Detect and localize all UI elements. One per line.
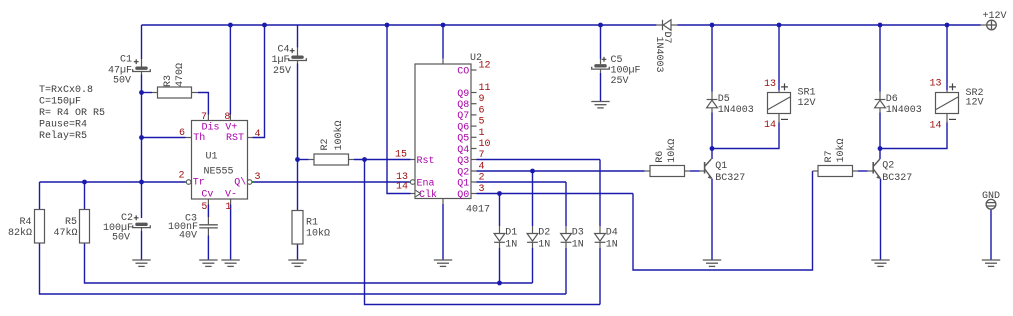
wire SR2 coil bottom to Q2 collector node <box>946 114 948 123</box>
svg-text:D1: D1 <box>505 228 517 239</box>
node junction rail/SR1 <box>777 23 782 28</box>
wire Tr pin 2 from R4/R5 node <box>40 181 187 183</box>
wire C2 bottom to ground <box>141 228 143 232</box>
wire Q2 collector <box>879 149 881 160</box>
U2 pin 10 Q4 stub <box>471 148 477 150</box>
svg-text:4: 4 <box>255 129 261 140</box>
wire R5 top <box>84 182 86 210</box>
svg-text:Dis: Dis <box>202 121 220 133</box>
wire V- pin 1 to ground <box>230 199 232 205</box>
svg-text:Q4: Q4 <box>457 145 469 156</box>
svg-text:1N4003: 1N4003 <box>718 105 754 116</box>
svg-text:R1: R1 <box>306 218 318 229</box>
wire RST pin 4 to rail <box>248 137 253 139</box>
wire R4 top <box>39 182 41 210</box>
U2 pin 7 Q3 stub <box>471 159 477 161</box>
svg-text:47kΩ: 47kΩ <box>53 227 77 239</box>
diode D1 <box>494 234 505 243</box>
ground C3 <box>199 260 217 266</box>
wire Cv pin 5 to C3 <box>207 199 209 205</box>
svg-text:Relay=R5: Relay=R5 <box>39 130 87 142</box>
diode D4 <box>595 234 606 243</box>
svg-text:R3: R3 <box>163 75 174 87</box>
svg-text:Cv: Cv <box>201 190 213 201</box>
wire rail to SR1 coil <box>778 25 780 90</box>
svg-text:1N4003: 1N4003 <box>886 105 922 116</box>
node junction D1 cathode on R5 bus <box>497 281 502 286</box>
svg-text:Q3: Q3 <box>457 156 469 167</box>
wire +12V terminal lead <box>981 24 987 26</box>
IC U1 NE555 body <box>192 121 248 200</box>
wire +12V rail right segment <box>678 24 981 26</box>
svg-text:100kΩ: 100kΩ <box>333 120 345 150</box>
wire U2 VSS bottom to ground <box>442 199 444 205</box>
svg-text:BC327: BC327 <box>715 173 745 184</box>
wire R4 bottom to bus <box>40 243 567 294</box>
wire C1 bottom to Th/Tr node column <box>141 71 143 75</box>
svg-text:14: 14 <box>929 121 941 132</box>
wire Q0 output row <box>477 193 634 195</box>
U1 pin 3 Q inversion circle <box>247 180 252 185</box>
resistor R5 <box>80 210 90 244</box>
diode D7 <box>656 20 677 30</box>
wire R3 right to Dis pin 7 <box>192 92 198 94</box>
U2 pin 11 Q9 stub <box>471 92 477 94</box>
svg-text:10kΩ: 10kΩ <box>666 139 678 163</box>
node junction rail/C5 <box>598 23 603 28</box>
svg-text:3: 3 <box>479 184 485 195</box>
wire D1 anode drop <box>499 194 501 227</box>
svg-text:100µF: 100µF <box>611 66 641 77</box>
wire D2 cathode to R5 bus <box>532 248 534 283</box>
svg-text:C1: C1 <box>120 55 132 66</box>
node junction R2/Rst riser <box>362 157 367 162</box>
svg-text:V-: V- <box>225 190 237 201</box>
wire R1 bottom to ground <box>297 244 299 260</box>
diode D5 <box>707 100 718 108</box>
svg-text:BC327: BC327 <box>882 173 912 184</box>
svg-text:40V: 40V <box>179 231 197 242</box>
wire D6 anode to Q2 collector node <box>879 108 881 112</box>
U2 pin 2 Q1 stub <box>471 181 477 183</box>
diode D2 <box>527 234 538 243</box>
svg-text:13: 13 <box>929 79 941 90</box>
diode D6 <box>875 100 886 108</box>
svg-text:Q7: Q7 <box>457 111 469 122</box>
svg-text:10kΩ: 10kΩ <box>306 228 330 240</box>
svg-text:GND: GND <box>982 191 1000 202</box>
U2 pin 4 Q2 stub <box>471 170 477 172</box>
wire C4 bottom to R2/Rst node <box>297 61 299 64</box>
wire C3 bottom to ground <box>207 228 209 236</box>
wire D3 cathode to R4 bus <box>565 248 567 294</box>
svg-text:13: 13 <box>764 79 776 90</box>
wire C1 column top (rail to C1) <box>141 25 143 59</box>
node junction Tr <box>139 180 144 185</box>
wire rail to D6 <box>879 25 881 92</box>
svg-text:R4: R4 <box>19 217 31 228</box>
node junction D5/SR1/Q1 <box>710 146 715 151</box>
svg-text:5: 5 <box>201 202 207 213</box>
svg-text:D4: D4 <box>606 228 618 239</box>
wire Q2 output row to R6 <box>477 170 645 172</box>
wire Q1 emitter to ground <box>711 179 713 261</box>
svg-text:R7: R7 <box>824 150 835 162</box>
capacitor C1 <box>133 59 151 71</box>
wire Th pin 6 <box>142 137 186 139</box>
wire rail to Clk pin 14 <box>387 25 411 194</box>
resistor R3 <box>158 87 192 98</box>
svg-text:15: 15 <box>395 150 407 161</box>
svg-text:C4: C4 <box>277 44 289 55</box>
svg-text:D6: D6 <box>886 94 898 105</box>
wire V+ pin 8 to rail <box>229 25 231 115</box>
svg-text:Pause=R4: Pause=R4 <box>39 119 87 130</box>
svg-text:10kΩ: 10kΩ <box>835 138 847 162</box>
svg-text:25V: 25V <box>611 76 629 87</box>
IC U2 4017 body <box>415 64 471 199</box>
node junction rail/D6 <box>878 23 883 28</box>
svg-text:R5: R5 <box>65 217 77 228</box>
capacitor C5 <box>592 57 610 69</box>
svg-text:1: 1 <box>225 202 231 213</box>
svg-text:Q0: Q0 <box>457 190 469 201</box>
svg-text:D3: D3 <box>572 228 584 239</box>
terminal +12V <box>987 20 997 30</box>
svg-text:10: 10 <box>479 139 491 150</box>
capacitor C2 <box>133 215 151 227</box>
U2 pin 1 Q5 stub <box>471 136 477 138</box>
svg-text:4: 4 <box>479 162 485 173</box>
svg-text:12V: 12V <box>798 98 816 109</box>
svg-text:R6: R6 <box>655 151 666 163</box>
svg-text:D2: D2 <box>538 228 550 239</box>
wire R2 left lead <box>298 159 309 161</box>
svg-text:50V: 50V <box>112 233 130 244</box>
resistor R6 <box>650 166 685 177</box>
svg-text:V+: V+ <box>225 122 237 133</box>
ground C2 <box>132 260 150 266</box>
svg-text:Q8: Q8 <box>457 100 469 111</box>
ground C5 <box>591 102 609 108</box>
svg-text:Q2: Q2 <box>882 161 894 172</box>
wire R7 right to Q2 base <box>853 170 859 172</box>
svg-text:+12V: +12V <box>983 11 1007 22</box>
wire GND terminal to ground <box>990 210 992 261</box>
svg-text:Q1: Q1 <box>457 178 469 189</box>
svg-text:7: 7 <box>201 112 207 123</box>
wire C4 column (rail to C4) <box>297 25 299 48</box>
U1 pin 2 Tr inversion circle <box>186 180 191 185</box>
capacitor C4 <box>289 48 307 60</box>
U2 pin 9 Q8 stub <box>471 103 477 105</box>
svg-text:Q1: Q1 <box>715 161 727 172</box>
wire +12V rail left segment <box>142 24 657 26</box>
wire R2 right to Rst pin 15 <box>349 159 355 161</box>
ground Q1 emitter <box>703 260 721 266</box>
svg-text:11: 11 <box>479 83 491 94</box>
svg-text:6: 6 <box>479 105 485 116</box>
wire rail to C5 <box>600 25 602 59</box>
svg-text:Ena: Ena <box>417 179 435 190</box>
U2 pin 3 Q0 stub <box>471 193 477 195</box>
svg-text:1N: 1N <box>606 239 618 250</box>
ground R1 <box>288 260 306 266</box>
U2 pin 12 CO stub <box>471 69 477 71</box>
svg-text:6: 6 <box>179 128 185 139</box>
svg-text:1N4003: 1N4003 <box>653 37 664 73</box>
svg-text:25V: 25V <box>273 66 291 77</box>
svg-text:1N: 1N <box>572 239 584 250</box>
node junction rail/U2 <box>441 23 446 28</box>
ground U2 <box>434 260 452 266</box>
svg-text:NE555: NE555 <box>204 167 234 178</box>
svg-text:14: 14 <box>396 182 408 193</box>
svg-text:SR1: SR1 <box>798 88 816 99</box>
svg-text:D5: D5 <box>718 94 730 105</box>
svg-text:5: 5 <box>479 117 485 128</box>
transistor Q1 <box>705 159 712 178</box>
svg-text:CO: CO <box>457 66 469 77</box>
node junction Q0/D1 <box>497 191 502 196</box>
svg-text:Tr: Tr <box>193 178 205 189</box>
wire R1 top <box>297 160 299 211</box>
U2 pin 5 Q6 stub <box>471 125 477 127</box>
svg-text:2: 2 <box>479 173 485 184</box>
svg-text:12: 12 <box>479 61 491 72</box>
svg-text:7: 7 <box>479 150 485 161</box>
svg-text:12V: 12V <box>966 98 984 109</box>
resistor R1 <box>292 211 303 245</box>
capacitor C3 <box>199 225 218 228</box>
wire Q0 riser to bottom bus to R7 <box>633 171 813 270</box>
node junction C4/R2/R1 <box>295 157 300 162</box>
wire D5 anode to Q1 collector node <box>711 108 713 112</box>
wire Q1 output row to D3 <box>477 181 567 183</box>
svg-text:T=RxCx0.8: T=RxCx0.8 <box>39 85 93 96</box>
ground Q2 emitter <box>871 260 889 266</box>
svg-text:Clk: Clk <box>419 189 437 201</box>
wire D4 cathode to bus <box>599 248 601 305</box>
svg-text:9: 9 <box>479 94 485 105</box>
svg-text:3: 3 <box>255 172 261 183</box>
svg-text:U1: U1 <box>206 152 218 163</box>
svg-text:Q\: Q\ <box>234 177 246 189</box>
wire Q1 collector <box>711 149 713 160</box>
wire D2 anode drop <box>532 171 534 226</box>
wire Rst-node riser to D4 bus <box>365 160 601 305</box>
node junction rail/SR2 <box>945 23 950 28</box>
wire rail to U2 VDD top <box>442 25 444 59</box>
svg-text:RST: RST <box>226 133 244 144</box>
svg-text:14: 14 <box>764 120 776 131</box>
svg-text:Th: Th <box>193 132 205 144</box>
wire C5 bottom to ground <box>600 69 602 73</box>
svg-text:82kΩ: 82kΩ <box>8 227 32 239</box>
wire D4 anode drop <box>599 160 601 227</box>
node junction D6/SR2/Q2 <box>878 146 883 151</box>
transistor Q2 <box>873 159 880 178</box>
node junction rail/RST <box>262 23 267 28</box>
wire D3 anode drop <box>565 182 567 226</box>
svg-text:1N: 1N <box>538 239 550 250</box>
node junction rail/Clk riser <box>385 23 390 28</box>
U2 pin 6 Q7 stub <box>471 114 477 116</box>
node junction rail/V+ <box>228 23 233 28</box>
resistor R4 <box>35 210 45 244</box>
wire SR1 coil bottom to Q1 collector node <box>778 114 780 123</box>
svg-text:Q5: Q5 <box>457 134 469 145</box>
svg-text:1: 1 <box>479 128 485 139</box>
svg-text:470Ω: 470Ω <box>175 63 186 87</box>
svg-text:Q9: Q9 <box>457 89 469 100</box>
svg-text:Rst: Rst <box>417 156 435 167</box>
terminal GND <box>986 199 996 209</box>
svg-text:4017: 4017 <box>466 205 490 216</box>
svg-text:C5: C5 <box>611 55 623 66</box>
svg-text:C=150µF: C=150µF <box>39 97 81 108</box>
svg-text:R= R4 OR R5: R= R4 OR R5 <box>39 108 105 119</box>
svg-text:50V: 50V <box>113 75 131 86</box>
svg-text:1µF: 1µF <box>271 55 289 66</box>
svg-text:2: 2 <box>178 170 184 181</box>
diode D3 <box>561 234 572 243</box>
svg-text:Q6: Q6 <box>457 122 469 133</box>
wire R5 bottom to bus <box>85 243 533 283</box>
resistor R7 <box>818 166 853 177</box>
wire Q2 emitter to ground <box>880 179 882 261</box>
node junction Q2/D2 <box>530 169 535 174</box>
svg-text:Q2: Q2 <box>457 167 469 178</box>
node junction rail/D5 <box>710 23 715 28</box>
wire Q3 output row to D4 <box>477 159 601 161</box>
wire Q\ pin 3 to Ena pin 13 <box>252 181 410 183</box>
node junction C1/R3 <box>139 90 144 95</box>
svg-text:8: 8 <box>224 112 230 123</box>
resistor R2 <box>314 154 349 165</box>
wire rail to SR2 coil <box>946 25 948 90</box>
svg-text:R2: R2 <box>320 138 331 150</box>
wire R6 right to Q1 base <box>685 170 691 172</box>
ground GND terminal <box>982 260 1000 266</box>
svg-text:1N: 1N <box>505 239 517 250</box>
node junction R5/Tr wire <box>82 180 87 185</box>
wire rail to D5 <box>711 25 713 92</box>
node junction Th <box>139 135 144 140</box>
ground U1 V- <box>221 260 239 266</box>
wire R3 left lead <box>142 92 153 94</box>
relay SR1 coil <box>768 83 791 119</box>
note formula text block <box>39 85 105 142</box>
relay SR2 coil <box>936 83 959 119</box>
